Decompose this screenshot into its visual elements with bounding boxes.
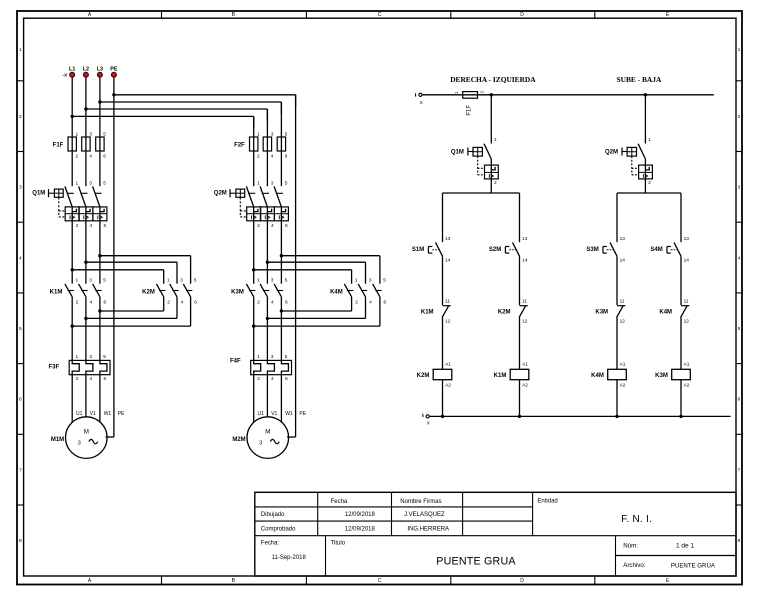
svg-text:4: 4 [271,223,274,229]
svg-text:6: 6 [104,376,107,382]
svg-text:5: 5 [383,278,386,284]
svg-text:5: 5 [19,326,22,332]
svg-text:5: 5 [285,278,288,284]
svg-text:1: 1 [167,278,170,284]
svg-text:Titulo: Titulo [331,540,346,546]
svg-text:1 de 1: 1 de 1 [676,543,694,550]
svg-text:12: 12 [684,319,690,325]
svg-text:PUENTE GRUA: PUENTE GRUA [671,562,716,569]
svg-text:4: 4 [19,255,22,261]
svg-text:K2M: K2M [142,289,155,295]
svg-text:13: 13 [522,236,528,242]
svg-text:6: 6 [285,154,288,160]
svg-text:S1M: S1M [412,247,424,253]
svg-text:S3M: S3M [586,247,598,253]
svg-text:4: 4 [369,300,372,306]
svg-text:1: 1 [257,354,260,360]
svg-text:Q1M: Q1M [32,190,45,196]
svg-text:A1: A1 [522,361,528,367]
svg-text:1: 1 [19,47,22,53]
svg-text:A1: A1 [445,361,451,367]
svg-text:5: 5 [194,278,197,284]
svg-text:1: 1 [738,47,741,53]
svg-text:6: 6 [104,300,107,306]
svg-text:K4M: K4M [659,309,672,315]
svg-text:5: 5 [103,131,106,137]
svg-text:A2: A2 [522,382,528,388]
svg-text:8: 8 [19,538,22,544]
svg-text:A2: A2 [684,382,690,388]
svg-text:4: 4 [89,154,92,160]
svg-text:SUBE - BAJA: SUBE - BAJA [617,75,662,84]
svg-text:3: 3 [89,180,92,186]
svg-text:PE: PE [118,411,125,417]
svg-text:Dibujado: Dibujado [261,512,285,518]
svg-text:1: 1 [257,278,260,284]
svg-text:K2M: K2M [498,309,511,315]
svg-text:3: 3 [738,185,741,191]
svg-text:A2: A2 [620,382,626,388]
svg-text:13: 13 [684,236,690,242]
svg-text:11-Sep-2018: 11-Sep-2018 [272,555,307,561]
svg-text:M1M: M1M [51,437,64,443]
svg-text:7: 7 [738,467,741,473]
svg-text:6: 6 [384,300,387,306]
svg-text:3: 3 [89,354,92,360]
svg-text:1: 1 [257,131,260,137]
svg-text:F4F: F4F [230,358,241,364]
svg-text:C: C [378,578,382,584]
svg-text:3: 3 [259,440,262,446]
svg-text:2: 2 [76,154,79,160]
svg-text:4: 4 [271,376,274,382]
svg-text:Archivo:: Archivo: [623,562,646,569]
svg-text:2: 2 [257,376,260,382]
svg-text:6: 6 [194,300,197,306]
svg-text:6: 6 [104,223,107,229]
svg-text:M: M [265,429,270,436]
svg-text:V1: V1 [90,411,96,417]
svg-text:5: 5 [285,131,288,137]
svg-text:3: 3 [180,278,183,284]
svg-text:Fecha:: Fecha: [261,540,280,546]
svg-text:1: 1 [76,180,79,186]
svg-text:K1M: K1M [50,289,63,295]
svg-text:2: 2 [355,300,358,306]
svg-text:2: 2 [76,223,79,229]
svg-text:1: 1 [76,131,79,137]
svg-text:S2M: S2M [489,247,501,253]
svg-text:F1F: F1F [467,105,473,116]
svg-text:L3: L3 [97,67,103,73]
svg-text:U1: U1 [76,411,83,417]
svg-text:1: 1 [494,137,497,143]
svg-text:12/09/2018: 12/09/2018 [345,512,376,518]
svg-text:1: 1 [355,278,358,284]
svg-text:F1F: F1F [53,142,64,148]
svg-text:2: 2 [494,180,497,186]
svg-text:K3M: K3M [655,373,668,379]
svg-text:K3M: K3M [231,289,244,295]
svg-text:12: 12 [445,319,451,325]
svg-text:Comprobado: Comprobado [261,526,296,532]
svg-text:D: D [520,12,524,18]
svg-text:K4M: K4M [330,289,343,295]
svg-text:X: X [427,420,430,425]
svg-text:PE: PE [299,411,306,417]
svg-text:5: 5 [285,180,288,186]
svg-text:M2M: M2M [232,437,245,443]
svg-text:4: 4 [271,300,274,306]
svg-text:F2F: F2F [234,142,245,148]
svg-text:C: C [378,12,382,18]
svg-text:2: 2 [738,114,741,120]
svg-text:12: 12 [522,319,528,325]
svg-text:A1: A1 [620,361,626,367]
svg-text:F. N. I.: F. N. I. [621,514,652,525]
svg-text:PE: PE [110,67,118,73]
svg-text:11: 11 [522,299,527,305]
svg-text:S4M: S4M [650,247,662,253]
svg-text:14: 14 [522,258,528,264]
svg-text:2: 2 [257,223,260,229]
svg-text:5: 5 [103,278,106,284]
svg-text:3: 3 [89,131,92,137]
svg-text:A2: A2 [445,382,451,388]
svg-text:Núm:: Núm: [623,543,638,550]
svg-text:2: 2 [76,300,79,306]
svg-text:6: 6 [285,300,288,306]
svg-text:4: 4 [90,223,93,229]
svg-text:4: 4 [90,300,93,306]
svg-text:K1M: K1M [421,309,434,315]
svg-text:12: 12 [620,319,626,325]
svg-text:6: 6 [738,397,741,403]
svg-text:M: M [84,429,89,436]
svg-text:6: 6 [103,154,106,160]
svg-text:3: 3 [271,354,274,360]
svg-text:L1: L1 [69,67,75,73]
svg-text:Fecha: Fecha [331,499,348,505]
svg-text:F3F: F3F [48,364,59,370]
svg-text:D: D [520,578,524,584]
svg-text:3: 3 [78,440,81,446]
svg-text:5: 5 [103,180,106,186]
svg-text:14: 14 [620,258,626,264]
svg-text:11: 11 [684,299,689,305]
svg-text:3: 3 [271,278,274,284]
svg-text:2: 2 [648,180,651,186]
svg-text:1: 1 [76,278,79,284]
svg-text:-X: -X [62,73,68,79]
svg-text:12/09/2018: 12/09/2018 [345,526,376,532]
svg-text:3: 3 [19,185,22,191]
svg-text:2: 2 [76,376,79,382]
svg-text:2: 2 [167,300,170,306]
svg-text:7: 7 [19,467,22,473]
svg-text:V1: V1 [271,411,277,417]
svg-text:J.VELASQUEZ: J.VELASQUEZ [404,512,445,518]
svg-text:4: 4 [181,300,184,306]
svg-text:2: 2 [257,300,260,306]
svg-text:K1M: K1M [494,373,507,379]
svg-text:13: 13 [620,236,626,242]
svg-text:K3M: K3M [595,309,608,315]
svg-text:K2M: K2M [417,373,430,379]
svg-text:Nombre Firmas: Nombre Firmas [400,499,441,505]
svg-text:4: 4 [738,255,741,261]
svg-text:ING.HERRERA: ING.HERRERA [407,526,449,532]
svg-text:X: X [420,100,423,105]
svg-text:6: 6 [19,397,22,403]
svg-text:13: 13 [445,236,451,242]
svg-text:PUENTE GRUA: PUENTE GRUA [436,555,516,567]
svg-text:A1: A1 [684,361,690,367]
svg-text:4: 4 [90,376,93,382]
svg-text:11: 11 [620,299,625,305]
svg-text:1: 1 [76,354,79,360]
svg-text:W1: W1 [285,411,293,417]
svg-text:Q2M: Q2M [214,190,227,196]
svg-text:14: 14 [445,258,451,264]
svg-text:U1: U1 [258,411,265,417]
svg-text:2: 2 [19,114,22,120]
svg-text:3: 3 [89,278,92,284]
svg-text:4: 4 [271,154,274,160]
svg-text:6: 6 [285,376,288,382]
svg-text:3: 3 [369,278,372,284]
svg-text:6: 6 [285,223,288,229]
svg-text:11: 11 [445,299,450,305]
svg-text:L2: L2 [83,67,89,73]
svg-text:2: 2 [257,154,260,160]
svg-text:8: 8 [738,538,741,544]
svg-text:Entidad: Entidad [537,499,557,505]
svg-text:1: 1 [648,137,651,143]
svg-text:Q2M: Q2M [605,149,618,155]
svg-text:5: 5 [738,326,741,332]
svg-text:3: 3 [271,180,274,186]
svg-text:W1: W1 [104,411,112,417]
svg-text:5: 5 [285,354,288,360]
svg-text:K4M: K4M [591,373,604,379]
svg-text:14: 14 [684,258,690,264]
svg-text:5: 5 [103,354,106,360]
svg-text:3: 3 [271,131,274,137]
svg-text:DERECHA - IZQUIERDA: DERECHA - IZQUIERDA [450,75,536,84]
svg-text:1: 1 [257,180,260,186]
svg-text:Q1M: Q1M [451,149,464,155]
